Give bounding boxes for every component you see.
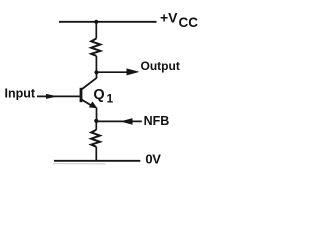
scan ghost under 0V rail (faint)	[53, 163, 106, 165]
+VCC supply rail (top)	[59, 21, 157, 23]
svg-text:0V: 0V	[145, 152, 161, 167]
node: collector junction (output takeoff)	[94, 70, 98, 74]
resistor R2 (emitter resistor)	[91, 130, 100, 147]
arrowhead: Input (points right, mid-line)	[46, 94, 58, 99]
svg-text:Q: Q	[93, 87, 104, 103]
svg-text:NFB: NFB	[144, 114, 170, 128]
wire: NFB feedback line	[97, 120, 142, 122]
wire: resistor R2 bottom lead to 0V rail	[95, 147, 97, 161]
wire: emitter down to NFB node	[96, 108, 98, 122]
transistor Q1 collector lead (slant)	[81, 78, 97, 90]
wire: resistor R1 bottom lead down to collector node	[95, 56, 97, 73]
svg-text:Output: Output	[141, 59, 180, 73]
svg-text:+V: +V	[160, 9, 178, 25]
svg-text:CC: CC	[179, 15, 199, 30]
wire: output line from collector node	[97, 71, 129, 73]
wire: input line to base	[37, 95, 80, 97]
transistor Q1 emitter lead with arrow	[82, 100, 93, 107]
node: junction of R1 with +VCC rail	[94, 20, 98, 24]
node: emitter junction (NFB takeoff)	[94, 119, 98, 123]
0V ground rail (bottom)	[54, 160, 140, 162]
wire: rail junction down to resistor R1 top lead	[95, 22, 97, 39]
arrowhead: NFB (points left at emitter node)	[120, 118, 132, 125]
transistor Q1 base bar	[80, 88, 83, 102]
arrowhead: Output (points right)	[127, 68, 140, 75]
svg-text:1: 1	[107, 91, 114, 105]
svg-text:Input: Input	[5, 86, 36, 100]
wire: NFB node down to resistor R2 top lead	[95, 121, 97, 130]
wire: collector lead vertical from node	[96, 72, 98, 78]
resistor R1 (collector load)	[91, 39, 100, 56]
